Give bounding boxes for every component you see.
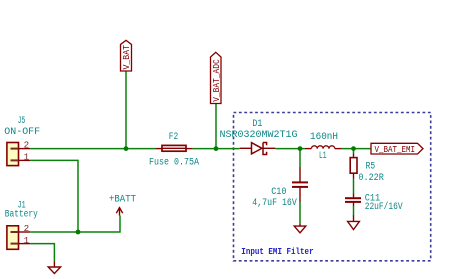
svg-text:1: 1	[24, 235, 30, 246]
ground under J1.1	[48, 262, 60, 274]
svg-text:V_BAT_EMI: V_BAT_EMI	[375, 145, 416, 155]
diode D1	[240, 143, 276, 155]
svg-text:+BATT: +BATT	[109, 194, 136, 205]
svg-text:ON-OFF: ON-OFF	[4, 126, 40, 137]
svg-text:4,7uF 16V: 4,7uF 16V	[252, 197, 297, 208]
global label V_BAT_ADC	[211, 52, 223, 103]
wire: node to R5	[353, 149, 355, 154]
svg-text:V_BAT_ADC: V_BAT_ADC	[212, 59, 222, 102]
svg-text:J5: J5	[18, 115, 26, 126]
svg-text:R5: R5	[366, 160, 376, 171]
wire: J1.1 to ground	[30, 244, 54, 262]
capacitor C10	[292, 167, 308, 202]
svg-text:NSR0320MW2T1G: NSR0320MW2T1G	[220, 129, 298, 140]
wire: C10 to ground	[299, 202, 301, 224]
junction node D1-L1-C10	[298, 146, 303, 151]
svg-text:1: 1	[24, 151, 30, 162]
resistor R5	[350, 154, 357, 179]
svg-text:L1: L1	[319, 150, 327, 161]
connector J1	[7, 226, 30, 250]
svg-text:F2: F2	[169, 131, 179, 142]
junction node V_BAT_ADC	[214, 146, 219, 151]
EMI filter box	[234, 113, 431, 261]
svg-text:2: 2	[24, 140, 30, 151]
wire: row B J1.2 to +BATT corner	[30, 216, 120, 233]
svg-text:C10: C10	[271, 186, 286, 197]
svg-text:Battery: Battery	[5, 209, 38, 220]
wire: R5 to C11	[353, 179, 355, 194]
global label V_BAT	[121, 40, 133, 71]
junction node V_BAT	[124, 146, 129, 151]
wire: V_BAT_ADC stem	[215, 104, 217, 149]
ground under C10	[294, 224, 306, 233]
svg-text:Input EMI Filter: Input EMI Filter	[241, 246, 314, 257]
ground under C11	[348, 215, 360, 230]
wire: C11 to ground	[353, 206, 355, 215]
svg-text:D1: D1	[252, 118, 262, 129]
svg-text:22uF/16V: 22uF/16V	[365, 201, 403, 212]
svg-text:160nH: 160nH	[310, 131, 338, 142]
power +BATT	[116, 208, 122, 216]
svg-text:2: 2	[24, 223, 30, 234]
wire: node to C10	[299, 149, 301, 167]
wire: J5.1 down to row B	[30, 160, 78, 232]
global label V_BAT_EMI	[371, 143, 423, 155]
inductor L1	[305, 146, 342, 149]
wire: V_BAT stem	[125, 71, 127, 149]
wire: D1 to L1	[275, 148, 305, 150]
junction node row B	[76, 230, 81, 235]
svg-text:0.22R: 0.22R	[358, 172, 384, 183]
capacitor C11	[345, 194, 361, 207]
svg-text:Fuse 0.75A: Fuse 0.75A	[149, 156, 199, 167]
wire: L1 to V_BAT_EMI	[342, 148, 371, 150]
connector J5	[7, 143, 30, 166]
junction node L1-R5	[351, 146, 356, 151]
wire: row A J5.2 to F2	[30, 148, 155, 150]
fuse F2	[155, 145, 192, 151]
svg-text:V_BAT: V_BAT	[122, 44, 132, 69]
wire: F2 to D1	[192, 148, 239, 150]
